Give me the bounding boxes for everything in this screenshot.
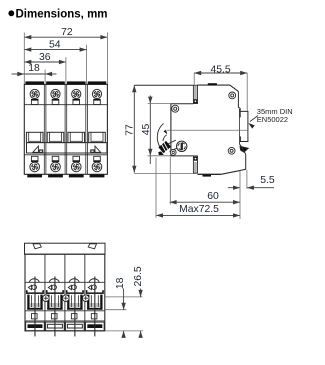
side view dimension 45 (149, 96, 151, 104)
bottom view dimension 26.5 (140, 289, 142, 297)
front view bottom screw terminal 4 (92, 162, 102, 172)
front view dimension 36 (24, 61, 66, 63)
svg-text:36: 36 (39, 52, 51, 63)
side view dimension 77 (133, 85, 135, 173)
bottom view pole 1 foot outline (26, 322, 45, 331)
side view dimension 45.5 (194, 72, 247, 74)
bottom view pole centre lines (34, 277, 36, 337)
side view DIN rail cross-section (240, 111, 248, 141)
front view toggle tie bar (27, 143, 107, 153)
front view dimension 72 (24, 36, 107, 38)
front view dimension 54 (24, 49, 86, 51)
svg-text:60: 60 (207, 191, 219, 202)
bottom view body outline (25, 254, 105, 331)
front view bottom terminal slot 1 (31, 156, 38, 161)
front view top terminal bars (25, 81, 44, 84)
bottom view pole 4 small square (91, 314, 97, 319)
bottom view horizontal rib lower (25, 320, 105, 322)
side view front bottom face (171, 155, 194, 157)
bottom view pole 3 foot outline (66, 322, 85, 331)
svg-text:EN50022: EN50022 (257, 115, 288, 124)
front view ON indicator flag right (95, 146, 101, 152)
side view toggle travel arc (157, 123, 165, 152)
side view rear upper edge (238, 91, 240, 111)
side view rear lower clip claw (240, 146, 248, 152)
svg-text:45.5: 45.5 (210, 65, 230, 76)
side view toggle rotation arrow (163, 135, 167, 141)
front view top screw terminal 4 (92, 89, 101, 98)
front view bottom screw terminal 3 (71, 162, 81, 172)
front view top screw terminal 1 (30, 89, 39, 98)
side view toggle lever arm (167, 140, 178, 151)
bottom view pole 1 latch detail (32, 285, 37, 290)
bottom view rail latch left (33, 244, 41, 249)
bottom view pole 2 terminal channel (46, 292, 64, 294)
bottom view pole 3 terminal channel (66, 292, 84, 294)
front view top screw terminal 2 (51, 89, 60, 98)
bottom view pole 2 latch detail (52, 285, 57, 290)
side view rear lower screw (228, 147, 235, 154)
bottom view horizontal rib upper (25, 310, 105, 312)
front view bottom terminal slot 3 (73, 156, 80, 161)
side view DIN rail label leader (250, 116, 258, 122)
bottom view pole 3 small square (71, 314, 77, 319)
side view bottom right chamfer (221, 170, 241, 174)
bottom view pole 4 dome boss (89, 279, 99, 283)
side view upper front screw (172, 105, 179, 112)
front view top terminal slot 3 (73, 99, 80, 104)
side view toggle lever knob (159, 141, 171, 152)
front view bottom terminal bars (27, 175, 42, 178)
side view body profile top face (134, 84, 193, 86)
side view bottom face (198, 173, 222, 175)
bottom view dimension 18 (105, 296, 142, 298)
front view pole divider lines (43, 84, 45, 174)
front view bottom terminal slot 2 (52, 156, 59, 161)
front view top terminal slot 1 (31, 99, 38, 104)
front view OFF indicator flag left (33, 146, 39, 152)
front view dimension 18 (12, 73, 25, 75)
front view top terminal slot 2 (52, 99, 59, 104)
side view dimension 60 (170, 201, 240, 203)
bottom view pole 4 terminal channel (86, 292, 104, 294)
front view bottom screw terminal 2 (51, 162, 61, 172)
front view breaker body outline (24, 84, 107, 174)
bottom view pole 4 foot bar (87, 324, 102, 328)
front view top screw terminal 3 (72, 89, 81, 98)
title bullet (8, 10, 14, 16)
side view top handle slot (193, 85, 197, 103)
bottom view pole 2 foot bar (47, 324, 62, 328)
bottom view pole 4 latch detail (92, 285, 97, 290)
side view bottom black lug (203, 175, 212, 177)
bottom view pole 3 dome boss (69, 279, 79, 283)
side view dimension Max72.5 (156, 214, 240, 216)
svg-text:18: 18 (28, 63, 40, 74)
svg-text:5.5: 5.5 (260, 175, 275, 186)
svg-text:77: 77 (124, 124, 135, 136)
bottom view pole 3 foot bar (67, 324, 82, 328)
side view bottom handle slot (193, 156, 197, 173)
front view toggle handles (26, 132, 43, 142)
bottom view joining screws (43, 295, 50, 302)
bottom view pole 2 dome boss (49, 279, 59, 283)
svg-text:54: 54 (49, 39, 61, 50)
side view top right chamfer (230, 85, 239, 91)
side view rail centre line (167, 129, 248, 131)
front view extension lines (23, 33, 25, 85)
side view main top face (197, 84, 229, 86)
svg-text:26.5: 26.5 (133, 266, 144, 286)
front view bottom screw terminal 1 (30, 162, 40, 172)
bottom view pole divider lines (44, 254, 46, 331)
bottom view pole 3 latch detail (72, 285, 77, 290)
front view upper horizontal rib (24, 104, 107, 106)
svg-text:Max72.5: Max72.5 (179, 204, 219, 215)
svg-text:72: 72 (61, 27, 73, 38)
front view top terminal slot 4 (94, 99, 101, 104)
bottom view pole 2 small square (51, 314, 57, 319)
side view top black lug (208, 83, 217, 85)
bottom view pole 1 foot bar (27, 324, 42, 328)
front view bottom terminal slot 4 (94, 156, 101, 161)
side view front top step face (171, 103, 193, 105)
svg-text:Dimensions, mm: Dimensions, mm (16, 9, 108, 21)
side view small front screw (170, 150, 176, 156)
side view front face (170, 104, 172, 156)
side view rear face behind rail (238, 109, 240, 144)
svg-text:18: 18 (115, 277, 126, 289)
svg-text:45: 45 (141, 124, 152, 136)
bottom view pole 2 foot outline (46, 322, 65, 331)
bottom view rail latch right (88, 244, 96, 249)
bottom view dome base line (25, 281, 105, 283)
side view pivot screw (177, 141, 187, 151)
bottom view pole 4 foot outline (86, 322, 105, 331)
bottom view pole 1 dome boss (29, 279, 39, 283)
bottom view pole 1 small square (31, 314, 37, 319)
side view rear upper screw (229, 92, 236, 99)
bottom view pole 1 terminal channel (26, 292, 44, 294)
front view lower horizontal rib (24, 154, 107, 156)
bottom view DIN rail cap (25, 243, 106, 254)
